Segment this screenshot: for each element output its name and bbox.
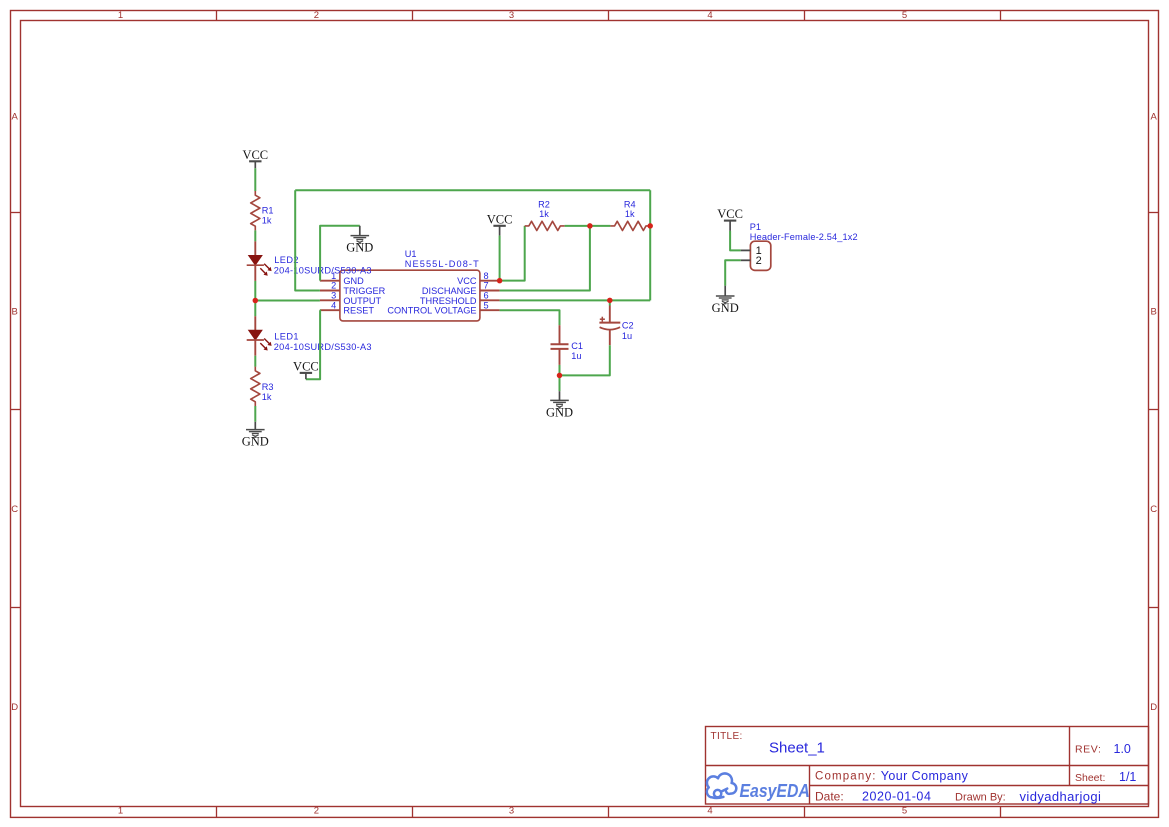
- svg-text:B: B: [12, 307, 18, 318]
- P1 pin 2: [741, 259, 751, 261]
- svg-text:VCC: VCC: [293, 360, 319, 374]
- svg-text:5: 5: [902, 10, 907, 21]
- ground flag GND (P1): [724, 286, 726, 296]
- wire C2 bottom to ground node: [560, 345, 610, 375]
- wire U1 pin4 RESET to VCC flag: [306, 310, 320, 379]
- svg-text:1k: 1k: [262, 392, 272, 402]
- svg-text:Date:: Date:: [815, 790, 844, 804]
- C2 polarity plus: [600, 318, 605, 320]
- svg-text:vidyadharjogi: vidyadharjogi: [1020, 789, 1102, 804]
- resistor R2: [525, 221, 565, 230]
- wire pin8 to R2 left: [500, 226, 525, 281]
- U1 pin 2 TRIGGER: [320, 290, 340, 292]
- svg-text:C: C: [1150, 504, 1157, 515]
- svg-text:B: B: [1151, 307, 1157, 318]
- svg-text:Sheet:: Sheet:: [1075, 772, 1105, 784]
- wire R3 to GND: [254, 406, 256, 422]
- svg-text:1u: 1u: [571, 351, 581, 361]
- svg-text:TRIGGER: TRIGGER: [343, 286, 385, 296]
- svg-text:5: 5: [484, 300, 489, 310]
- svg-text:GND: GND: [343, 276, 364, 286]
- U1 pin 4 RESET: [320, 309, 340, 311]
- junction node THRESHOLD/C2: [607, 298, 613, 304]
- svg-text:REV:: REV:: [1075, 744, 1102, 756]
- wire node to C2 top: [609, 300, 611, 305]
- svg-text:2: 2: [314, 10, 319, 21]
- svg-text:LED1: LED1: [274, 332, 299, 342]
- capacitor C1: [559, 325, 561, 344]
- wire THRESHOLD pin6 horizontal: [500, 299, 651, 301]
- svg-text:U1: U1: [405, 249, 417, 259]
- svg-text:2020-01-04: 2020-01-04: [862, 790, 931, 804]
- svg-text:VCC: VCC: [717, 207, 743, 221]
- svg-text:1u: 1u: [622, 331, 632, 341]
- P1 pin 1: [741, 249, 751, 251]
- svg-text:R4: R4: [624, 200, 636, 210]
- svg-text:3: 3: [509, 10, 514, 21]
- wire R2 to mid node: [565, 225, 590, 227]
- wire mid node to R4 left: [590, 225, 611, 227]
- svg-text:D: D: [1150, 702, 1157, 713]
- svg-text:Sheet_1: Sheet_1: [769, 740, 825, 757]
- junction node R4 right / vertical net: [647, 223, 653, 229]
- wire P1 pin2 to GND: [725, 260, 741, 285]
- svg-text:VCC: VCC: [487, 212, 513, 226]
- svg-text:THRESHOLD: THRESHOLD: [420, 296, 477, 306]
- U1 pin 5 CONTROL VOLTAGE: [480, 309, 500, 311]
- wire R1 to LED2: [254, 230, 256, 241]
- svg-text:204-10SURD/S530-A3: 204-10SURD/S530-A3: [274, 342, 372, 352]
- svg-text:GND: GND: [346, 241, 373, 255]
- svg-text:1: 1: [331, 271, 336, 281]
- resistor R1: [251, 191, 260, 230]
- op/ic U1 NE555L-D08-T body: [340, 270, 480, 321]
- capacitor C2 (polarized): [609, 306, 611, 323]
- svg-text:VCC: VCC: [457, 276, 477, 286]
- svg-text:1: 1: [118, 806, 123, 817]
- svg-text:D: D: [11, 702, 18, 713]
- wire U1 pin5 CONTROL VOLTAGE to C1: [500, 310, 560, 325]
- U1 pin 7 DISCHANGE: [480, 290, 500, 292]
- svg-text:R3: R3: [262, 382, 274, 392]
- junction node U1 pin8: [497, 278, 503, 284]
- svg-text:1/1: 1/1: [1119, 770, 1136, 784]
- svg-text:R2: R2: [538, 200, 550, 210]
- wire U1 pin1 to GND flag: [320, 226, 360, 281]
- ground flag GND (below R3): [254, 422, 256, 430]
- svg-text:1k: 1k: [262, 215, 272, 225]
- svg-text:4: 4: [331, 300, 336, 310]
- junction node C1/C2 ground: [557, 373, 563, 379]
- svg-text:DISCHANGE: DISCHANGE: [422, 286, 477, 296]
- svg-text:GND: GND: [712, 301, 739, 315]
- svg-text:Drawn By:: Drawn By:: [955, 792, 1006, 804]
- svg-text:C2: C2: [622, 321, 634, 331]
- svg-text:C: C: [11, 504, 18, 515]
- svg-text:Company:: Company:: [815, 771, 877, 783]
- svg-text:A: A: [12, 112, 19, 123]
- svg-text:A: A: [1151, 112, 1158, 123]
- wire VCC flag to U1 pin8: [499, 236, 501, 281]
- svg-text:RESET: RESET: [343, 306, 374, 316]
- svg-text:8: 8: [484, 271, 489, 281]
- svg-text:OUTPUT: OUTPUT: [343, 296, 381, 306]
- ground flag GND (C1/C2): [559, 391, 561, 400]
- wire VCC to P1 pin1: [730, 231, 741, 251]
- svg-text:1k: 1k: [539, 209, 549, 219]
- connector P1 body: [750, 241, 770, 270]
- wire mid node down to U1 pin7 DISCHANGE: [500, 226, 590, 291]
- U1 pin 8 VCC: [480, 280, 500, 282]
- svg-text:2: 2: [756, 255, 762, 267]
- svg-text:2: 2: [314, 806, 319, 817]
- junction node R2/R4/DISCHANGE: [587, 223, 593, 229]
- svg-text:4: 4: [707, 806, 712, 817]
- svg-text:Your Company: Your Company: [881, 769, 969, 783]
- svg-text:7: 7: [484, 281, 489, 291]
- svg-text:4: 4: [707, 10, 712, 21]
- svg-text:1.0: 1.0: [1114, 742, 1131, 756]
- svg-text:NE555L-D08-T: NE555L-D08-T: [405, 259, 480, 269]
- resistor R4: [610, 221, 650, 230]
- svg-text:3: 3: [509, 806, 514, 817]
- svg-text:204-10SURD/S530-A3: 204-10SURD/S530-A3: [274, 265, 372, 275]
- svg-text:1k: 1k: [625, 209, 635, 219]
- svg-text:6: 6: [484, 290, 489, 300]
- wire right vertical net: [649, 190, 651, 300]
- wire node to U1 pin 3 OUTPUT: [255, 300, 320, 302]
- U1 pin 3 OUTPUT: [320, 299, 340, 301]
- LED LED1: [254, 316, 256, 330]
- wire LED2 to LED1 (node at OUTPUT): [254, 281, 256, 316]
- svg-text:GND: GND: [242, 435, 269, 449]
- svg-text:CONTROL VOLTAGE: CONTROL VOLTAGE: [387, 306, 476, 316]
- ground flag GND (U1 pin 1): [359, 226, 361, 236]
- junction node OUTPUT: [253, 298, 258, 304]
- U1 pin 6 THRESHOLD: [480, 299, 500, 301]
- svg-text:Header-Female-2.54_1x2: Header-Female-2.54_1x2: [750, 232, 858, 242]
- svg-text:TITLE:: TITLE:: [711, 731, 743, 742]
- svg-text:2: 2: [331, 281, 336, 291]
- wire LED1 to R3: [254, 356, 256, 367]
- svg-text:GND: GND: [546, 406, 573, 420]
- resistor R3: [251, 367, 260, 406]
- svg-text:R1: R1: [262, 205, 274, 215]
- wire top horizontal net: [295, 189, 650, 191]
- svg-text:3: 3: [331, 290, 336, 300]
- LED LED2: [254, 241, 256, 255]
- svg-text:1: 1: [118, 10, 123, 21]
- wire C1 bottom to GND: [559, 365, 561, 391]
- wire U1 pin2 TRIGGER up-left: [295, 190, 320, 290]
- svg-text:C1: C1: [571, 341, 583, 351]
- svg-text:VCC: VCC: [242, 148, 268, 162]
- wire VCC to R1: [254, 168, 256, 191]
- svg-text:P1: P1: [750, 222, 761, 232]
- svg-text:EasyEDA: EasyEDA: [740, 780, 810, 801]
- svg-text:5: 5: [902, 806, 907, 817]
- U1 pin 1 GND: [320, 280, 340, 282]
